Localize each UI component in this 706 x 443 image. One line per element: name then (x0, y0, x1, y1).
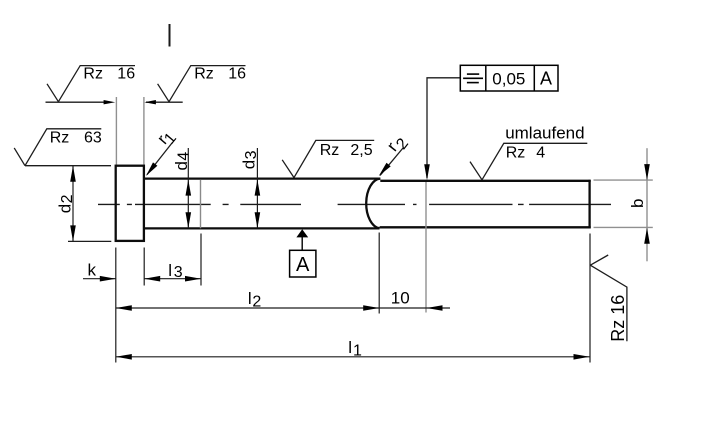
svg-text:l: l (348, 338, 352, 357)
dimension d2 (55, 166, 76, 242)
section boundary line at end of d4 zone (grey) (200, 180, 202, 229)
svg-text:16: 16 (117, 66, 135, 83)
svg-text:Rz: Rz (194, 66, 214, 83)
svg-text:16: 16 (608, 295, 628, 315)
dimension d4 (172, 148, 193, 228)
dimension l3 (144, 261, 201, 281)
leader r1 (146, 130, 180, 176)
surface finish Rz 4 umlaufend (470, 123, 587, 179)
surface finish Rz 2,5 (282, 140, 374, 177)
surface finish Rz 16 on head right face (144, 66, 246, 105)
bottom extension line at shaft end (589, 234, 591, 363)
dimension l2 with 10 (116, 288, 450, 310)
svg-text:Rz: Rz (50, 130, 70, 147)
bottom extension line at r2 transition (378, 233, 380, 314)
svg-text:16: 16 (228, 66, 246, 83)
feature control frame (symmetry 0,05 A) (460, 65, 558, 91)
datum A symbol (290, 229, 316, 277)
surface finish Rz 16 on shaft end (rotated) (590, 255, 628, 342)
symmetry symbol (467, 73, 479, 75)
svg-text:b: b (628, 199, 647, 208)
extension line grey below FCF arrow (425, 182, 427, 313)
svg-text:d: d (172, 161, 191, 170)
detached extension tick (169, 24, 171, 47)
svg-text:Rz: Rz (83, 66, 103, 83)
svg-text:k: k (88, 260, 97, 279)
svg-text:3: 3 (174, 264, 183, 281)
dimension b (628, 148, 650, 261)
extension line above head right face (grey) (143, 97, 145, 165)
dimension k (83, 260, 116, 281)
svg-text:3: 3 (243, 150, 260, 159)
surface finish Rz 16 on head left face (46, 66, 136, 105)
r2 transition arc (366, 179, 380, 229)
svg-text:d: d (239, 160, 258, 169)
shaft outline middle section (145, 179, 380, 229)
pin head outline (116, 166, 144, 241)
centerline (98, 203, 611, 205)
bottom extension line at head left face (115, 248, 117, 363)
b extension lines (grey) (594, 180, 653, 227)
svg-text:1: 1 (353, 343, 362, 360)
svg-text:63: 63 (84, 130, 102, 147)
bottom extension line at head right face (143, 248, 145, 286)
svg-text:4: 4 (536, 144, 545, 161)
svg-text:0,05: 0,05 (492, 69, 525, 88)
svg-text:A: A (540, 68, 552, 88)
svg-text:l: l (248, 289, 252, 308)
svg-text:Rz: Rz (320, 142, 340, 159)
svg-text:Rz: Rz (506, 144, 526, 161)
svg-text:umlaufend: umlaufend (505, 123, 584, 142)
shaft outline right section (380, 180, 591, 229)
extension line above head left face (grey) (115, 97, 117, 165)
svg-text:2,5: 2,5 (350, 142, 372, 159)
head bottom extension line (68, 240, 111, 242)
svg-text:A: A (296, 254, 310, 276)
dimension d3 (239, 148, 260, 228)
svg-text:4: 4 (175, 152, 192, 161)
bottom extension line at end of l3 (200, 234, 202, 286)
svg-text:l: l (168, 261, 172, 280)
svg-text:2: 2 (59, 194, 76, 203)
feature control frame leader with arrow (424, 78, 460, 180)
svg-text:10: 10 (391, 288, 410, 307)
surface finish Rz 63 with head top extension line (14, 129, 111, 166)
svg-text:2: 2 (252, 293, 261, 310)
svg-text:d: d (55, 204, 74, 213)
leader r2 (379, 135, 412, 176)
dimension l1 (116, 338, 590, 359)
svg-text:Rz: Rz (608, 320, 628, 342)
